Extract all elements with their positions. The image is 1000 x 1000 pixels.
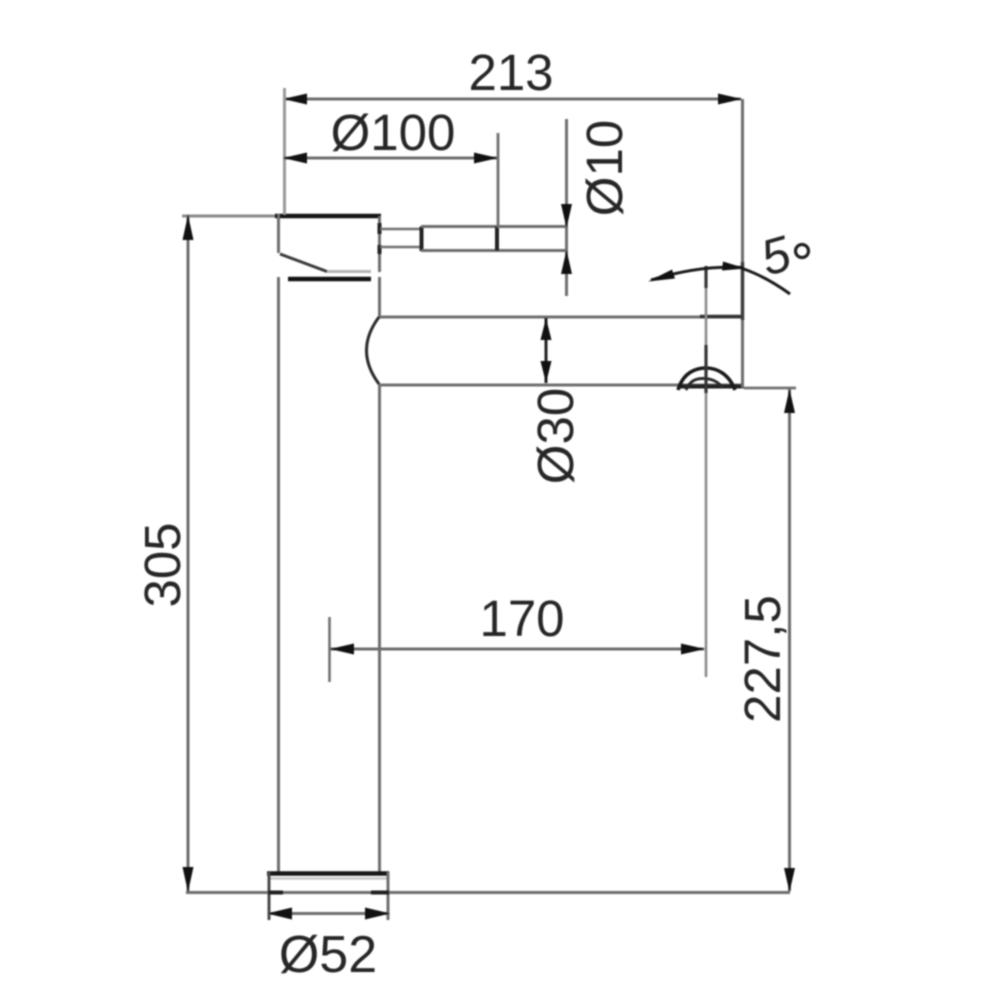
handle rod top	[421, 225, 566, 228]
outlet centerline	[705, 266, 708, 677]
dim O30 bottom arrow	[541, 361, 552, 383]
column right edge lower	[378, 384, 381, 873]
aerator outer dome	[678, 368, 735, 390]
column left edge	[277, 277, 280, 873]
handle rod neck bottom	[380, 246, 421, 249]
svg-text:305: 305	[134, 522, 191, 607]
dim 170 right arrow	[681, 644, 705, 655]
svg-text:Ø30: Ø30	[527, 388, 584, 484]
countertop surface line	[186, 891, 790, 894]
base plate top edge	[267, 874, 389, 879]
handle underside light line	[327, 270, 371, 273]
aerator inner dome	[686, 379, 723, 391]
base plate left edge	[268, 872, 271, 920]
handle rod bottom	[421, 249, 566, 252]
spout right end / 213 extension line	[741, 99, 744, 388]
svg-text:Ø100: Ø100	[331, 104, 456, 161]
dim O30 top arrow	[541, 318, 552, 340]
dim 305 top arrow	[183, 215, 194, 240]
dim O10 top arrow	[561, 204, 572, 228]
spout bottom edge	[379, 385, 744, 387]
column right edge upper	[378, 277, 381, 317]
dim 227,5 bottom arrow	[784, 868, 795, 892]
dim 213 right arrow	[718, 94, 742, 105]
svg-text:Ø10: Ø10	[576, 120, 633, 216]
base plate bottom / dim line O52	[268, 912, 389, 915]
dim 5 degree right arrowhead	[722, 262, 746, 271]
dim 305 line	[187, 215, 190, 892]
label 5 degrees	[755, 225, 809, 287]
dim 170 line	[330, 648, 704, 651]
faucet head left edge	[277, 214, 280, 253]
dim 227,5 top arrow	[784, 389, 795, 413]
svg-text:170: 170	[479, 590, 564, 647]
dim 5 degree left arrowhead	[648, 270, 675, 282]
dim O100 right extension line	[497, 133, 500, 228]
dim 5 degree arc leader	[651, 267, 743, 280]
dim 213 line	[284, 98, 741, 101]
dim 227,5 line	[788, 389, 791, 891]
dim 213/O100 shared left extension line	[283, 88, 286, 215]
dim O100 right arrow	[474, 153, 498, 164]
base plate right edge	[387, 872, 390, 920]
faucet head right edge	[378, 216, 381, 272]
dim 170 left arrow	[330, 644, 354, 655]
dim 305 bottom arrow	[183, 867, 194, 892]
dim O30 line	[545, 318, 548, 383]
handle rod neck top	[380, 228, 421, 231]
dim O52 right arrow	[365, 908, 390, 920]
head bottom black line	[288, 277, 371, 282]
spout-column junction arc	[367, 317, 380, 384]
dim O10 bottom arrow	[561, 250, 572, 274]
faucet head top edge	[182, 215, 381, 218]
svg-text:213: 213	[468, 44, 553, 101]
handle rod neck divider	[420, 227, 424, 252]
dim O10 line	[565, 119, 568, 296]
dim 227,5 top extension line	[744, 387, 796, 390]
svg-text:Ø52: Ø52	[279, 926, 377, 984]
dim 213 left arrow	[283, 94, 307, 105]
dim O52 left arrow	[267, 908, 292, 920]
svg-text:227,5: 227,5	[734, 595, 791, 723]
dim O100 left arrow	[283, 153, 307, 164]
handle rod divider	[495, 227, 499, 251]
dim O100 line	[284, 157, 497, 160]
handle lever diagonal	[280, 254, 327, 272]
dim 170 column centerline tick	[328, 617, 331, 682]
dim 5 degree tail line	[741, 268, 790, 294]
spout top edge	[379, 315, 744, 319]
